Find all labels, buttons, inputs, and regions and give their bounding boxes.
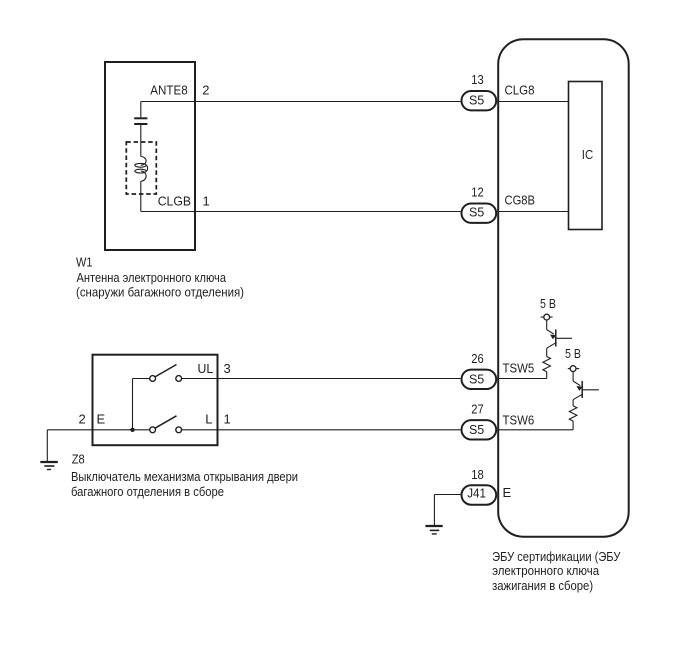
svg-text:TSW5: TSW5 bbox=[503, 360, 535, 375]
svg-text:S5: S5 bbox=[469, 93, 484, 108]
svg-text:12: 12 bbox=[471, 184, 484, 199]
svg-text:Выключатель механизма открыван: Выключатель механизма открывания двери bbox=[71, 469, 298, 484]
svg-text:CG8B: CG8B bbox=[505, 193, 536, 208]
svg-text:Z8: Z8 bbox=[72, 452, 85, 467]
svg-text:E: E bbox=[97, 412, 106, 427]
svg-text:IC: IC bbox=[582, 147, 593, 162]
svg-text:1: 1 bbox=[203, 194, 210, 209]
svg-text:(снаружи багажного отделения): (снаружи багажного отделения) bbox=[76, 285, 244, 300]
svg-text:S5: S5 bbox=[469, 371, 484, 386]
svg-text:UL: UL bbox=[198, 361, 214, 376]
svg-text:CLG8: CLG8 bbox=[505, 83, 535, 98]
svg-text:багажного отделения в сборе: багажного отделения в сборе bbox=[71, 484, 224, 499]
svg-text:Антенна электронного ключа: Антенна электронного ключа bbox=[77, 270, 227, 285]
svg-text:CLGB: CLGB bbox=[158, 194, 191, 209]
svg-text:ЭБУ сертификации (ЭБУ: ЭБУ сертификации (ЭБУ bbox=[492, 549, 621, 564]
svg-text:W1: W1 bbox=[76, 255, 93, 270]
svg-text:27: 27 bbox=[471, 401, 484, 416]
svg-text:2: 2 bbox=[79, 412, 86, 427]
svg-text:1: 1 bbox=[224, 412, 231, 427]
svg-text:5 В: 5 В bbox=[565, 346, 581, 361]
svg-text:зажигания в сборе): зажигания в сборе) bbox=[492, 578, 593, 593]
svg-text:18: 18 bbox=[471, 467, 484, 482]
svg-text:TSW6: TSW6 bbox=[503, 412, 535, 427]
svg-text:S5: S5 bbox=[469, 205, 484, 220]
svg-text:E: E bbox=[503, 485, 512, 500]
svg-text:ANTE8: ANTE8 bbox=[150, 83, 187, 98]
svg-text:3: 3 bbox=[224, 361, 231, 376]
svg-text:электронного ключа: электронного ключа bbox=[492, 563, 600, 578]
svg-text:26: 26 bbox=[471, 351, 484, 366]
svg-text:5 В: 5 В bbox=[540, 296, 556, 311]
svg-text:2: 2 bbox=[202, 83, 209, 98]
svg-text:13: 13 bbox=[471, 72, 484, 87]
svg-text:L: L bbox=[205, 412, 212, 427]
svg-text:J41: J41 bbox=[467, 486, 486, 501]
svg-text:S5: S5 bbox=[469, 422, 484, 437]
